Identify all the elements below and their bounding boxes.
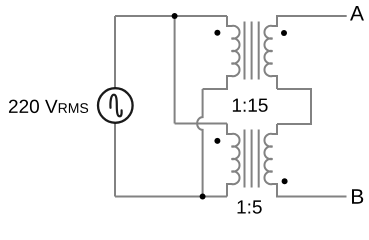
label T2 turns ratio 1:5: [238, 200, 262, 213]
polarity dot T2 secondary: [282, 178, 288, 184]
label T1 turns ratio 1:15: [233, 99, 268, 112]
junction dot top (node joining source, T1 and T2 primaries): [172, 13, 178, 19]
transformer T1 primary winding (left coil with leads): [203, 16, 240, 89]
transformer T2 primary winding (left coil with leads): [227, 124, 240, 197]
AC source V1 circle: [98, 88, 133, 123]
wire horizontal at mid feeding T2 primary top: [175, 123, 227, 125]
wire top horizontal from source to T1 primary: [115, 15, 227, 17]
node B terminal label: [352, 189, 363, 203]
transformer T2 core lines: [245, 130, 259, 188]
polarity dot T1 secondary: [281, 30, 287, 36]
wire bottom horizontal from source to T2 primary: [115, 196, 227, 198]
transformer T1 core lines: [245, 22, 259, 80]
wire from T1 primary bottom down with hop over mid wire to bottom junction: [197, 89, 203, 197]
wire left vertical from top wire down to source top: [114, 16, 116, 88]
AC source V1 sine wave: [110, 95, 121, 117]
transformer T2 secondary winding with lead to terminal B: [264, 124, 346, 197]
wire vertical from top junction down to T2 primary feed: [174, 16, 176, 124]
polarity dot T2 primary: [214, 138, 220, 144]
transformer T1 secondary winding with lead to terminal A: [264, 16, 346, 89]
wire from source bottom down to bottom wire: [114, 123, 116, 197]
junction dot bottom (node joining source return and primaries): [200, 194, 206, 200]
wire series link from T1 secondary bottom to T2 secondary top: [277, 89, 311, 124]
polarity dot T1 primary: [214, 30, 220, 36]
node A terminal label: [350, 6, 364, 20]
label source value 220 VRMS: [9, 100, 88, 113]
